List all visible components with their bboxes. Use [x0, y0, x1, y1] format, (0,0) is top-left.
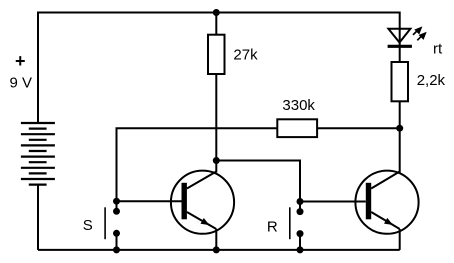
node junction top (27k to rail)	[213, 9, 220, 16]
emission arrow 2	[417, 36, 421, 40]
node R on bottom rail	[297, 246, 304, 253]
pushbutton switch R	[290, 198, 304, 253]
wire 330k right to node	[317, 127, 400, 129]
wire S lower stub	[116, 233, 118, 250]
resistor R2 330k	[277, 119, 317, 137]
pushbutton switch S	[105, 198, 120, 254]
Q1 body circle	[171, 171, 234, 234]
wire base Q2 from R	[300, 201, 366, 203]
S lower contact	[113, 230, 120, 237]
Q2 emitter lead	[371, 212, 400, 229]
wire LED to 2,2k	[399, 46, 401, 62]
svg-text:27k: 27k	[233, 46, 258, 63]
svg-text:S: S	[83, 217, 93, 234]
wire Q1 emitter to bottom rail	[215, 229, 217, 250]
Q1 base bar	[182, 183, 187, 220]
wire node to R switch (cross coupling)	[216, 161, 300, 202]
node collector Q1 junction	[213, 157, 220, 164]
wire 330k left branch	[117, 128, 278, 201]
svg-text:2,2k: 2,2k	[417, 72, 446, 89]
wire Q1 collector to node	[215, 161, 217, 173]
node R base junction	[297, 198, 304, 205]
S upper contact	[113, 208, 120, 215]
R upper contact	[297, 208, 304, 215]
wire battery bottom to rail	[37, 185, 39, 250]
wire R lower stub	[299, 234, 301, 250]
R actuator bar	[289, 207, 291, 239]
node emitter Q1 to rail	[213, 246, 220, 253]
Q1 collector lead	[187, 172, 216, 189]
Q2 body circle	[355, 171, 418, 234]
wire S upper stub	[116, 201, 118, 211]
Q2 emitter arrow	[384, 218, 393, 225]
D1 anode triangle	[388, 29, 410, 43]
wire through LED anode to cathode	[399, 29, 401, 47]
resistor R1 27k	[208, 35, 225, 74]
wire 27k bottom to node	[215, 74, 217, 161]
transistor Q2	[355, 171, 418, 250]
node LED branch junction	[396, 125, 403, 132]
S actuator bar	[104, 207, 106, 239]
svg-text:330k: 330k	[282, 97, 315, 114]
wire Q2 emitter to bottom rail	[399, 229, 401, 250]
wire R upper stub	[299, 202, 301, 212]
wire bottom rail	[38, 249, 400, 251]
wire top rail	[38, 13, 400, 124]
wire 2,2k bottom to collector Q2	[399, 101, 401, 172]
resistor R3 2,2k	[392, 62, 409, 101]
Q1 emitter lead	[187, 212, 216, 229]
node S on bottom rail	[113, 246, 120, 253]
LED D1	[388, 29, 412, 47]
svg-text:+: +	[15, 51, 26, 71]
wire base Q1 from S	[117, 200, 182, 202]
node S base junction	[113, 198, 120, 205]
svg-text:R: R	[267, 218, 278, 235]
svg-text:9 V: 9 V	[10, 75, 33, 92]
LED light emission arrows	[413, 28, 425, 40]
D1 cathode bar	[388, 45, 412, 48]
svg-text:rt: rt	[433, 41, 443, 58]
transistor Q1	[171, 161, 234, 250]
wire 27k top	[215, 13, 217, 35]
R lower contact	[297, 230, 304, 237]
Q2 base bar	[366, 183, 371, 220]
Q2 collector lead	[371, 172, 400, 189]
emission arrow 1	[413, 31, 417, 35]
Q1 emitter arrow	[201, 218, 210, 225]
battery B1	[21, 123, 55, 185]
